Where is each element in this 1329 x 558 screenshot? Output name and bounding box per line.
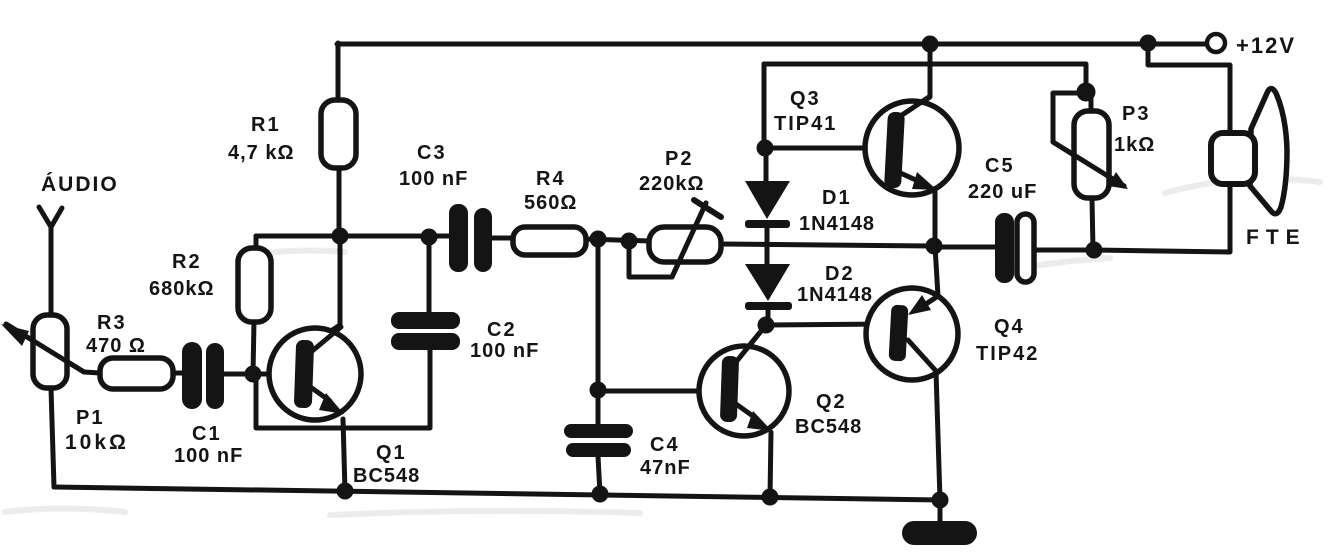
svg-text:100 nF: 100 nF xyxy=(399,168,468,190)
svg-text:R1: R1 xyxy=(251,114,281,136)
svg-text:1kΩ: 1kΩ xyxy=(1114,134,1155,156)
svg-text:C4: C4 xyxy=(650,434,680,456)
svg-text:BC548: BC548 xyxy=(795,416,862,438)
svg-text:Q1: Q1 xyxy=(376,442,407,464)
svg-text:R2: R2 xyxy=(172,251,202,273)
svg-text:R3: R3 xyxy=(97,312,127,334)
svg-text:D2: D2 xyxy=(825,263,855,285)
svg-text:1N4148: 1N4148 xyxy=(799,213,875,235)
svg-text:Q3: Q3 xyxy=(790,88,821,110)
svg-text:D1: D1 xyxy=(822,187,852,209)
svg-text:47nF: 47nF xyxy=(640,457,691,479)
svg-text:Q2: Q2 xyxy=(816,391,847,413)
svg-text:P3: P3 xyxy=(1122,103,1150,125)
svg-text:4,7 kΩ: 4,7 kΩ xyxy=(228,142,295,164)
svg-text:TIP41: TIP41 xyxy=(774,113,837,135)
svg-text:220 uF: 220 uF xyxy=(968,181,1037,203)
svg-text:680kΩ: 680kΩ xyxy=(149,278,215,300)
svg-text:10kΩ: 10kΩ xyxy=(65,431,129,454)
svg-text:220kΩ: 220kΩ xyxy=(639,173,705,195)
svg-text:+12V: +12V xyxy=(1236,33,1296,58)
svg-text:470 Ω: 470 Ω xyxy=(86,335,146,357)
svg-text:Q4: Q4 xyxy=(994,316,1025,338)
svg-text:BC548: BC548 xyxy=(353,465,420,487)
svg-text:C2: C2 xyxy=(487,319,517,341)
svg-text:C1: C1 xyxy=(192,423,222,445)
svg-text:C3: C3 xyxy=(417,142,447,164)
svg-text:C5: C5 xyxy=(985,155,1015,177)
svg-text:R4: R4 xyxy=(536,168,566,190)
svg-text:TIP42: TIP42 xyxy=(976,343,1039,365)
svg-text:FTE: FTE xyxy=(1246,226,1307,249)
svg-text:100 nF: 100 nF xyxy=(470,340,539,362)
svg-text:P1: P1 xyxy=(76,407,104,429)
svg-text:ÁUDIO: ÁUDIO xyxy=(41,173,119,196)
svg-text:1N4148: 1N4148 xyxy=(797,284,873,306)
svg-text:P2: P2 xyxy=(665,148,693,170)
svg-text:560Ω: 560Ω xyxy=(524,192,577,214)
svg-text:100 nF: 100 nF xyxy=(174,445,243,467)
